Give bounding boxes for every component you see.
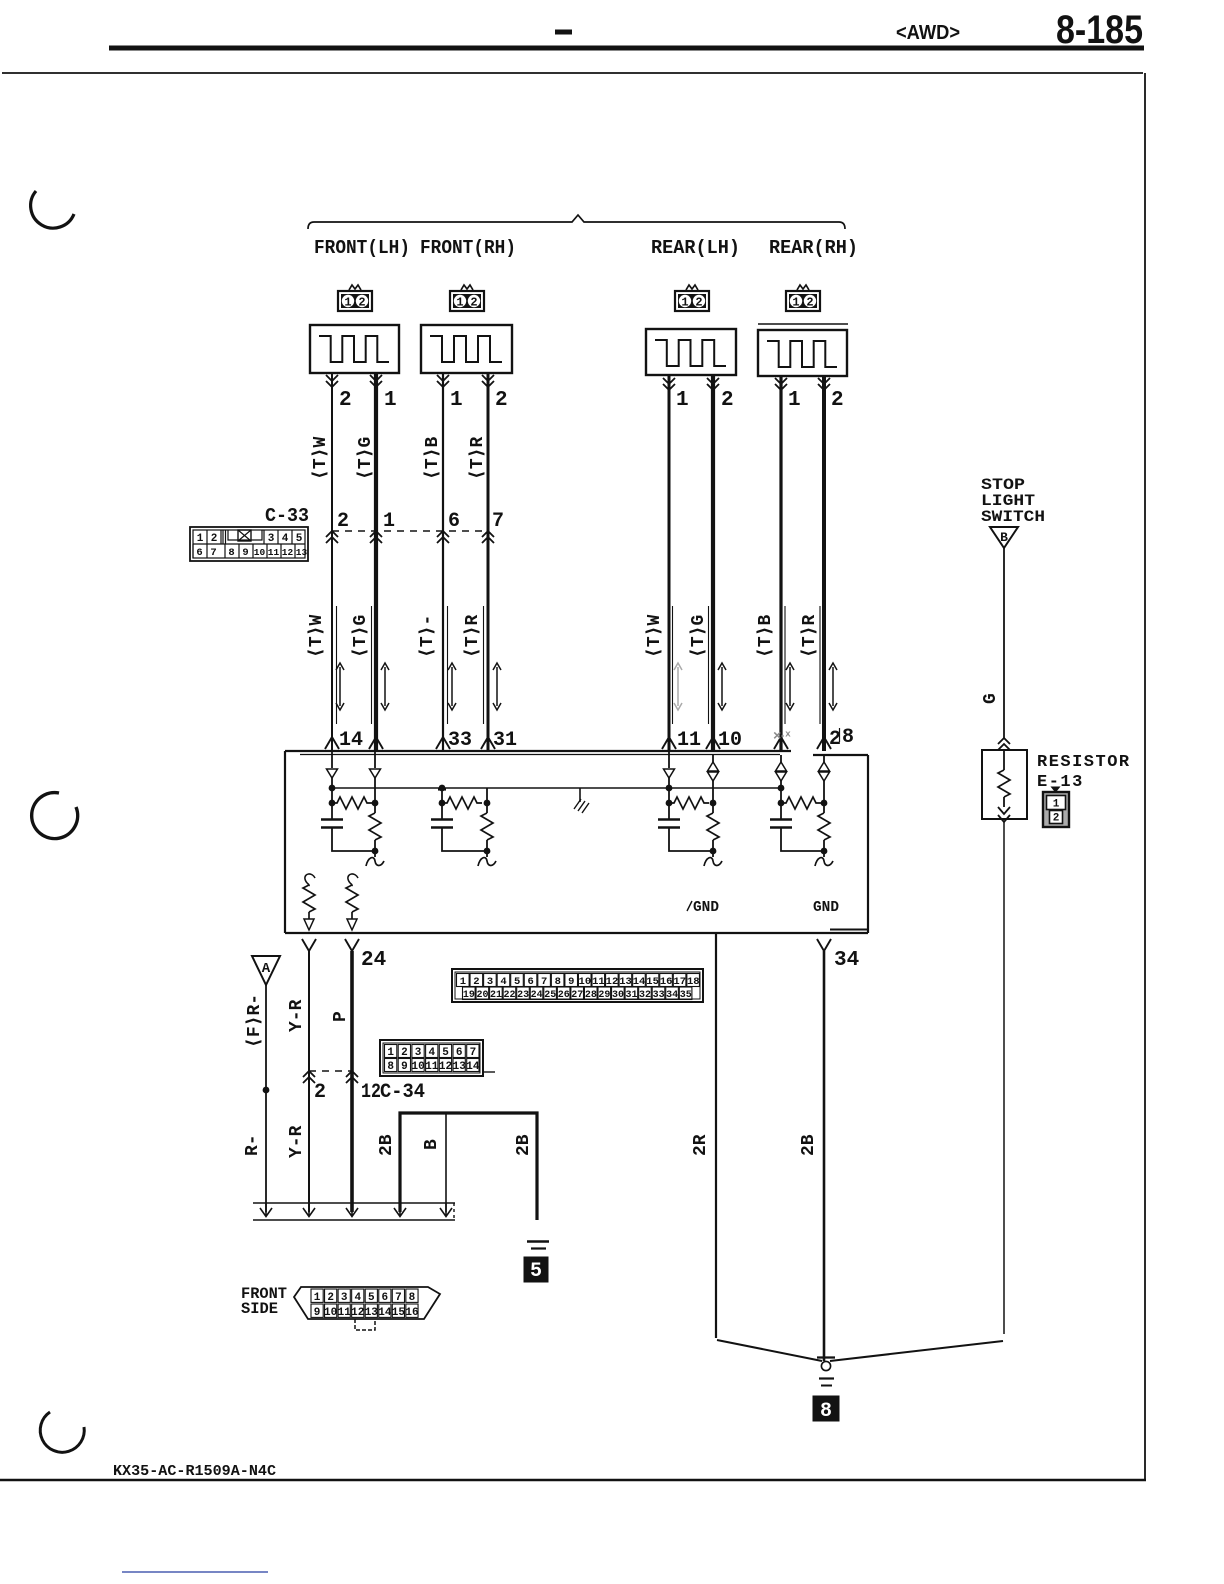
svg-text:12: 12 [439, 1061, 452, 1073]
svg-text:FRONT(LH): FRONT(LH) [314, 237, 410, 259]
svg-text:2B: 2B [514, 1134, 534, 1156]
svg-text:2: 2 [358, 296, 365, 310]
svg-text:3: 3 [415, 1047, 422, 1059]
svg-text:<AWD>: <AWD> [896, 22, 960, 44]
junction dots [329, 785, 379, 807]
svg-text:6: 6 [456, 1047, 463, 1059]
svg-text:1: 1 [1053, 799, 1060, 811]
ECU pin 33 fork [436, 737, 450, 749]
svg-text:2: 2 [473, 976, 479, 988]
svg-text:×·ˣ: ×·ˣ [773, 729, 791, 745]
ECU pin 31 fork [481, 737, 495, 749]
C-34 pass-through arrows [303, 1071, 358, 1083]
svg-text:16: 16 [405, 1307, 418, 1319]
svg-text:24: 24 [531, 990, 543, 1001]
stray scan line above REAR(RH) sensor [758, 323, 848, 325]
wire from terminal A [263, 985, 270, 1212]
svg-text:2: 2 [327, 1292, 334, 1304]
svg-text:26: 26 [558, 990, 570, 1001]
svg-text:33: 33 [653, 990, 665, 1001]
input terminal right [708, 755, 719, 813]
connector E-13 icon [1043, 787, 1069, 827]
svg-text:15: 15 [646, 976, 659, 988]
C-33 pass-through arrows [482, 531, 494, 543]
input terminal left [327, 751, 338, 819]
svg-text:7: 7 [541, 976, 547, 988]
svg-text:19: 19 [463, 990, 475, 1001]
filter capacitor [431, 820, 453, 828]
svg-text:⟨T⟩B: ⟨T⟩B [423, 437, 443, 480]
svg-text:5: 5 [296, 533, 303, 545]
svg-text:2: 2 [1053, 813, 1060, 825]
FRONT SIDE connector outline [294, 1287, 440, 1319]
svg-text:13: 13 [365, 1307, 379, 1319]
svg-text:GND: GND [813, 900, 839, 916]
svg-text:8: 8 [409, 1292, 416, 1304]
connector plug 1-2 at REAR LH sensor [675, 285, 709, 311]
harness group bracket [308, 215, 845, 229]
svg-text:34: 34 [834, 949, 859, 972]
svg-text:2: 2 [337, 510, 349, 533]
ECU pin 11 fork [662, 737, 676, 749]
svg-text:5: 5 [368, 1292, 375, 1304]
resistor E-13 element [998, 750, 1010, 807]
svg-text:11: 11 [677, 729, 701, 752]
wire from REAR sensor pin 2 down to ABS-ECU [707, 376, 719, 751]
series resistor [332, 797, 372, 809]
svg-text:18: 18 [687, 976, 700, 988]
shunt resistor [481, 813, 493, 857]
ECU GND wire left [715, 933, 717, 1338]
output resistor to pin 2 [303, 874, 315, 930]
sensor pin numbers front [339, 389, 508, 412]
svg-text:8: 8 [387, 1061, 394, 1073]
svg-text:1: 1 [681, 296, 688, 310]
ECU pin (faint) fork [369, 737, 383, 749]
svg-text:2: 2 [695, 296, 702, 310]
svg-text:⟨T⟩-: ⟨T⟩- [418, 615, 438, 658]
svg-text:13: 13 [453, 1061, 467, 1073]
internal chassis ground [574, 788, 589, 813]
svg-text:2: 2 [495, 389, 508, 412]
junction dots [439, 785, 491, 807]
connector plug 1-2 at REAR RH sensor [786, 285, 820, 311]
input terminal left [776, 755, 787, 819]
wire from REAR sensor pin 1 down to ABS-ECU [663, 376, 675, 751]
svg-text:A: A [262, 961, 271, 977]
svg-text:31: 31 [493, 729, 517, 752]
svg-text:⟨T⟩R: ⟨T⟩R [463, 615, 483, 658]
wire from FRONT sensor pin 1 down to ABS-ECU [437, 373, 449, 751]
svg-text:⟨T⟩W: ⟨T⟩W [645, 615, 665, 658]
svg-text:8: 8 [820, 1400, 832, 1423]
input terminal right [370, 751, 381, 813]
shunt resistor [818, 813, 830, 857]
svg-text:4: 4 [282, 533, 289, 545]
svg-text:⟨T⟩W: ⟨T⟩W [307, 615, 327, 658]
frame right border [1144, 73, 1146, 1480]
svg-text:1: 1 [456, 296, 463, 310]
svg-text:G: G [981, 693, 1001, 704]
connector arrows into resistor [998, 738, 1010, 750]
input terminal right [819, 755, 830, 813]
svg-text:6: 6 [382, 1292, 389, 1304]
header rule [109, 46, 1144, 51]
svg-text:9: 9 [401, 1061, 408, 1073]
sensor pin numbers rear [676, 389, 844, 412]
ECU top pin numbers [339, 726, 854, 752]
wire capacitor to node [669, 828, 713, 852]
resistor element [303, 885, 315, 919]
svg-text:8: 8 [228, 547, 234, 559]
C-33 pass-through arrows [326, 531, 338, 543]
svg-text:1: 1 [387, 1047, 394, 1059]
svg-text:6: 6 [448, 510, 460, 533]
wire from REAR sensor pin 2 down to ABS-ECU [818, 376, 830, 751]
wire G from stop light switch [1003, 548, 1005, 738]
output resistor to pin 12/24 [346, 874, 358, 930]
wire to ground 8 right diagonal [830, 1341, 1003, 1361]
series resistor [669, 797, 709, 809]
svg-text:12: 12 [282, 547, 294, 558]
twisted pair double arrow [786, 663, 794, 710]
svg-text:P: P [331, 1011, 351, 1022]
harness arrow [346, 1203, 358, 1217]
svg-text:27: 27 [571, 990, 583, 1001]
squiggle from internal circuit [348, 874, 358, 886]
wire to ground 8 left diagonal [717, 1340, 822, 1361]
svg-text:2: 2 [470, 296, 477, 310]
footer blue mark [122, 1571, 268, 1573]
svg-text:4: 4 [354, 1292, 361, 1304]
svg-text:B: B [1000, 530, 1008, 545]
branch wire B [445, 1113, 447, 1212]
svg-text:13: 13 [619, 976, 632, 988]
svg-text:2B: 2B [377, 1134, 397, 1156]
svg-text:22: 22 [504, 990, 516, 1001]
input terminal left [664, 751, 675, 819]
junction dots [778, 785, 828, 807]
svg-text:⟨F⟩R-: ⟨F⟩R- [245, 994, 265, 1048]
svg-text:11: 11 [338, 1307, 352, 1319]
twisted pair double arrow [448, 663, 456, 710]
resistor E-13 box [982, 750, 1027, 819]
filter capacitor [658, 820, 680, 828]
svg-text:GND: GND [693, 900, 719, 916]
svg-text:1: 1 [676, 389, 689, 412]
shunt resistor [369, 813, 381, 857]
node dot [372, 848, 379, 855]
twisted pair double arrow [493, 663, 501, 710]
connector C-34 pin table [380, 1040, 495, 1076]
svg-text:2: 2 [806, 296, 813, 310]
svg-text:31: 31 [625, 990, 637, 1001]
svg-text:6: 6 [527, 976, 533, 988]
35-pin connector table [452, 969, 703, 1002]
connector plug 1-2 at FRONT RH sensor [450, 285, 484, 311]
harness arrow [440, 1203, 452, 1217]
svg-text:7: 7 [470, 1047, 477, 1059]
wheel speed sensor FRONT(LH) [310, 325, 399, 373]
connector C-33 pin table [190, 527, 308, 561]
C-33 pin numbers [337, 510, 504, 533]
svg-text:REAR(RH): REAR(RH) [769, 237, 858, 259]
svg-text:1: 1 [383, 510, 395, 533]
terminal B triangle [990, 527, 1018, 548]
svg-text:14: 14 [339, 729, 363, 752]
twisted pair double arrow [336, 663, 344, 710]
svg-text:SWITCH: SWITCH [981, 508, 1045, 526]
FRONT SIDE connector tab [355, 1319, 375, 1330]
svg-text:C-33: C-33 [265, 505, 309, 527]
series resistor [781, 797, 821, 809]
svg-text:7: 7 [395, 1292, 402, 1304]
svg-text:5: 5 [442, 1047, 449, 1059]
svg-text:REAR(LH): REAR(LH) [651, 237, 740, 259]
svg-text:7: 7 [210, 547, 216, 559]
svg-text:10: 10 [718, 729, 742, 752]
harness elbow wire 2B [400, 1113, 537, 1220]
svg-text:⟨T⟩R: ⟨T⟩R [468, 437, 488, 480]
svg-text:2: 2 [339, 389, 352, 412]
filter capacitor [770, 820, 792, 828]
svg-text:8: 8 [555, 976, 561, 988]
svg-text:5: 5 [514, 976, 520, 988]
wheel speed sensor FRONT(RH) [421, 325, 512, 373]
svg-text:E-13: E-13 [1037, 773, 1084, 792]
svg-text:14: 14 [378, 1307, 392, 1319]
svg-text:KX35-AC-R1509A-N4C: KX35-AC-R1509A-N4C [113, 1463, 276, 1480]
wire from REAR sensor pin 1 down to ABS-ECU [775, 376, 787, 751]
node dot [821, 848, 828, 855]
RL sensor input circuit: resistor + capacitor + resistor [658, 751, 722, 866]
front harness bus [253, 1203, 455, 1220]
svg-text:6: 6 [196, 547, 202, 559]
node dot [710, 848, 717, 855]
GND label left [687, 900, 719, 916]
svg-text:3: 3 [268, 533, 275, 545]
svg-text:3: 3 [487, 976, 493, 988]
svg-text:1: 1 [792, 296, 799, 310]
svg-text:23: 23 [517, 990, 529, 1001]
wire from FRONT sensor pin 2 down to ABS-ECU [482, 373, 494, 751]
svg-text:14: 14 [466, 1061, 480, 1073]
svg-text:11: 11 [592, 976, 605, 988]
connector arrows out of resistor [998, 807, 1010, 1334]
internal circuit squiggle [815, 858, 833, 866]
svg-text:14: 14 [633, 976, 646, 988]
svg-text:8: 8 [842, 726, 854, 749]
ECU pin 14 fork [325, 737, 339, 749]
series resistor [442, 797, 482, 809]
svg-text:⟨T⟩W: ⟨T⟩W [311, 437, 331, 480]
svg-text:11: 11 [425, 1061, 439, 1073]
svg-text:21: 21 [490, 990, 502, 1001]
svg-text:35: 35 [680, 990, 692, 1001]
terminal A triangle [252, 956, 280, 985]
svg-text:24: 24 [361, 949, 386, 972]
svg-text:R-: R- [243, 1134, 263, 1156]
wire capacitor to node [332, 828, 375, 852]
filter capacitor [321, 820, 343, 828]
squiggle from internal circuit [305, 874, 315, 886]
svg-text:2R: 2R [691, 1134, 711, 1156]
input terminal right [486, 788, 488, 813]
harness arrow [260, 1203, 272, 1217]
svg-text:9: 9 [314, 1307, 321, 1319]
C-33 pass-through arrows [437, 531, 449, 543]
junction dots [666, 785, 717, 807]
svg-text:2: 2 [314, 1081, 326, 1104]
internal circuit squiggle [478, 858, 496, 866]
twisted pair double arrow [718, 663, 726, 710]
svg-text:⟨T⟩R: ⟨T⟩R [800, 615, 820, 658]
internal circuit squiggle [704, 858, 722, 866]
svg-text:Y-R: Y-R [287, 999, 307, 1032]
svg-text:1: 1 [197, 533, 204, 545]
internal circuit squiggle [366, 858, 384, 866]
svg-text:12: 12 [361, 1081, 381, 1104]
svg-text:12: 12 [606, 976, 619, 988]
harness arrow [394, 1203, 406, 1217]
node dot [484, 848, 491, 855]
twisted pair double arrow [381, 663, 389, 710]
ECU bottom pin 34 fork [817, 939, 831, 1361]
svg-text:8-185: 8-185 [1056, 8, 1143, 52]
svg-text:13: 13 [296, 547, 308, 558]
svg-text:7: 7 [492, 510, 504, 533]
svg-text:Y-R: Y-R [287, 1125, 307, 1158]
wire capacitor to node [442, 828, 487, 852]
svg-text:10: 10 [254, 547, 266, 558]
svg-text:33: 33 [448, 729, 472, 752]
svg-text:12: 12 [351, 1307, 364, 1319]
svg-text:B: B [422, 1139, 442, 1150]
STOP LIGHT SWITCH label [981, 476, 1045, 526]
svg-text:1: 1 [344, 296, 351, 310]
svg-text:10: 10 [324, 1307, 337, 1319]
svg-text:⟨T⟩B: ⟨T⟩B [756, 615, 776, 658]
wheel speed sensor REAR(LH) [646, 329, 736, 375]
svg-text:3: 3 [341, 1292, 348, 1304]
page header dash [555, 30, 572, 35]
shield lines along sensor wires [337, 606, 821, 724]
svg-text:4: 4 [428, 1047, 435, 1059]
svg-text:1: 1 [788, 389, 801, 412]
wire from FRONT sensor pin 2 down to ABS-ECU [326, 373, 338, 751]
svg-text:16: 16 [660, 976, 673, 988]
svg-text:FRONT(RH): FRONT(RH) [420, 237, 516, 259]
svg-text:32: 32 [639, 990, 651, 1001]
svg-text:5: 5 [530, 1260, 542, 1283]
svg-text:9: 9 [568, 976, 574, 988]
twisted pair double arrow (faint) [674, 663, 682, 710]
frame top rule [2, 72, 1143, 74]
wire capacitor to node [781, 828, 824, 852]
ground point 8 [813, 1358, 839, 1424]
svg-text:34: 34 [666, 990, 678, 1001]
svg-text:20: 20 [476, 990, 488, 1001]
svg-text:⟨T⟩G: ⟨T⟩G [356, 437, 376, 480]
internal sensor bus wire [332, 787, 781, 789]
svg-text:2: 2 [721, 389, 734, 412]
wire from FRONT sensor pin 1 down to ABS-ECU [370, 373, 382, 751]
svg-text:10: 10 [411, 1061, 424, 1073]
ECU bottom pin fork (to 2) [302, 939, 316, 1212]
output arrow [347, 919, 357, 930]
svg-text:1: 1 [460, 976, 466, 988]
ECU pin 10 fork [706, 737, 720, 749]
svg-text:9: 9 [242, 547, 248, 559]
resistor element [346, 885, 358, 919]
FRONT SIDE label [241, 1285, 287, 1318]
shunt resistor [707, 813, 719, 857]
ABS-ECU box [285, 751, 868, 933]
connector plug 1-2 at FRONT LH sensor [338, 285, 372, 311]
svg-text:⟨T⟩G: ⟨T⟩G [689, 615, 709, 658]
wheel speed sensor REAR(RH) [758, 330, 847, 376]
svg-text:2B: 2B [799, 1134, 819, 1156]
svg-text:⟨T⟩G: ⟨T⟩G [351, 615, 371, 658]
input terminal left [438, 788, 446, 819]
RR sensor input circuit: resistor + capacitor + resistor [770, 755, 833, 866]
svg-text:2: 2 [401, 1047, 408, 1059]
svg-text:11: 11 [268, 547, 280, 558]
C-34 junction dashed line [309, 1070, 352, 1072]
svg-text:29: 29 [598, 990, 610, 1001]
output arrow [304, 919, 314, 930]
harness arrow [303, 1203, 315, 1217]
C-33 pass-through arrows [370, 531, 382, 543]
svg-text:4: 4 [500, 976, 506, 988]
svg-text:15: 15 [392, 1307, 406, 1319]
svg-text:1: 1 [450, 389, 463, 412]
svg-text:2: 2 [831, 389, 844, 412]
svg-text:10: 10 [579, 976, 592, 988]
svg-text:RESISTOR: RESISTOR [1037, 753, 1131, 772]
svg-text:25: 25 [544, 990, 556, 1001]
C-33 junction dashed line [332, 530, 488, 532]
ground point 5 [524, 1242, 549, 1284]
FL sensor input circuit: resistor + capacitor + resistor [321, 751, 384, 866]
svg-text:30: 30 [612, 990, 624, 1001]
svg-text:17: 17 [673, 976, 686, 988]
ECU pin (faint) fork [774, 737, 788, 749]
svg-text:C-34: C-34 [380, 1081, 425, 1104]
svg-text:SIDE: SIDE [241, 1300, 278, 1318]
svg-text:1: 1 [314, 1292, 321, 1304]
twisted pair double arrow [829, 663, 837, 710]
ECU bottom pin 24 fork [345, 939, 359, 1212]
frame bottom rule [0, 1479, 1146, 1482]
ECU pin 2 fork [817, 737, 831, 749]
FR sensor input circuit: resistor + capacitor + resistor [431, 785, 496, 866]
FRONT SIDE pin table [311, 1289, 419, 1319]
svg-text:2: 2 [211, 533, 218, 545]
svg-text:28: 28 [585, 990, 597, 1001]
svg-text:1: 1 [384, 389, 397, 412]
